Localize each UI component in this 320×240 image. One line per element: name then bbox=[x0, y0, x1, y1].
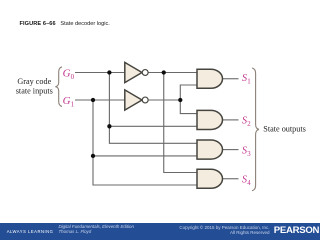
wire S2 output bbox=[223, 119, 239, 121]
right brace bbox=[252, 68, 259, 191]
svg-text:4: 4 bbox=[247, 180, 251, 187]
junction on inverter1 output bbox=[162, 70, 166, 74]
svg-text:state inputs: state inputs bbox=[16, 86, 53, 95]
svg-text:G: G bbox=[63, 68, 71, 80]
junction on G0 wire bbox=[107, 70, 111, 74]
wire G1 branch vertical bbox=[93, 100, 197, 185]
wire G0 to AND2 lower input bbox=[109, 125, 197, 127]
left brace bbox=[55, 67, 62, 107]
figure caption bbox=[20, 21, 110, 27]
wire G1 to AND3 lower input bbox=[93, 155, 197, 157]
AND gate 2 (S2) bbox=[197, 110, 223, 129]
svg-text:2: 2 bbox=[247, 121, 251, 128]
AND gate 1 (S1) bbox=[197, 69, 223, 88]
AND gate 3 (S3) bbox=[197, 140, 222, 159]
junction G1 branch to AND3 bbox=[91, 154, 95, 158]
wire G0 input run bbox=[75, 72, 197, 74]
wire inverter1 output branch vertical bbox=[164, 73, 197, 173]
label: Gray code state inputs bbox=[16, 77, 53, 95]
wire inverter2 output to AND2 upper input bbox=[180, 100, 197, 114]
footer bar bbox=[0, 223, 320, 240]
AND gate 4 (S4) bbox=[197, 169, 223, 188]
junction G0 branch to AND2 bbox=[107, 124, 111, 128]
svg-text:3: 3 bbox=[247, 151, 251, 158]
svg-text:Gray code: Gray code bbox=[17, 77, 51, 86]
svg-text:G: G bbox=[63, 95, 71, 107]
wire S4 output bbox=[223, 178, 239, 180]
wire G1 input run bbox=[75, 99, 180, 101]
wire S1 output bbox=[223, 78, 239, 80]
junction on G1 wire bbox=[91, 98, 95, 102]
svg-text:1: 1 bbox=[71, 102, 75, 109]
wire inverter2 output to AND1 lower input bbox=[180, 85, 197, 100]
inverter U2 (G1) bbox=[125, 90, 148, 110]
svg-text:State outputs: State outputs bbox=[263, 124, 306, 133]
svg-text:0: 0 bbox=[71, 74, 75, 81]
junction on inverter2 output bbox=[178, 98, 182, 102]
wire S3 output bbox=[223, 149, 239, 151]
inverter U1 (G0) bbox=[125, 62, 148, 82]
svg-text:1: 1 bbox=[247, 78, 250, 85]
wire G0 branch vertical bbox=[109, 73, 197, 144]
